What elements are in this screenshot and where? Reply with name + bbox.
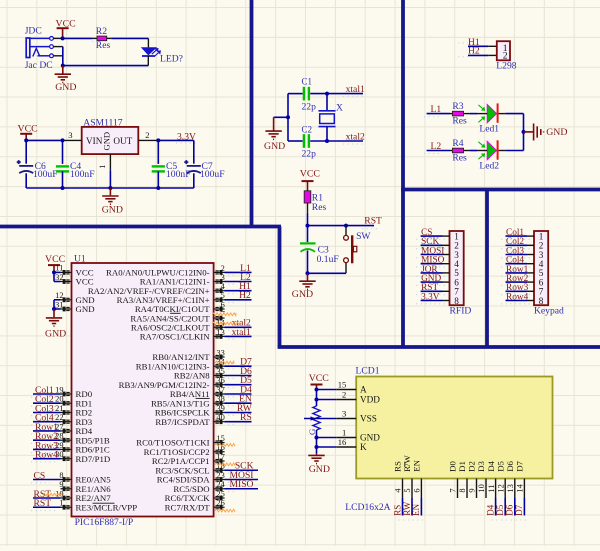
U1 pin 38 net EN xyxy=(214,402,225,405)
U1 overline T1G xyxy=(196,397,210,399)
svg-text:24: 24 xyxy=(216,480,225,489)
svg-text:LCD1: LCD1 xyxy=(356,366,380,377)
wire VCC to R2 xyxy=(63,37,93,39)
wire jack pins to ground node xyxy=(62,47,64,66)
sheet divider horizontal bottom xyxy=(278,345,600,349)
wire LCD vcc column xyxy=(316,390,318,407)
wire H1 xyxy=(468,45,488,47)
U1 pin 28 net Row2 xyxy=(61,439,72,442)
svg-text:C2: C2 xyxy=(302,124,313,134)
svg-text:Jac DC: Jac DC xyxy=(25,60,53,71)
U1 pin 33 xyxy=(214,356,225,359)
svg-text:5: 5 xyxy=(221,291,225,300)
svg-text:21: 21 xyxy=(55,404,63,413)
wire LCD gnd column xyxy=(316,430,318,453)
U1 pin 32 VCC xyxy=(61,280,72,283)
U1 pin 1 net RST xyxy=(61,506,72,509)
ground GND LCD xyxy=(316,453,318,454)
svg-text:RB7/ICSPDAT: RB7/ICSPDAT xyxy=(155,417,210,427)
svg-text:OUT: OUT xyxy=(113,136,132,146)
U1 pin 10 net RST xyxy=(61,497,72,500)
wire C1 to xtal1 xyxy=(310,93,363,95)
svg-text:RD7/P1D: RD7/P1D xyxy=(76,454,111,464)
svg-text:38: 38 xyxy=(216,395,224,404)
U1 pin 7 xyxy=(214,317,225,320)
sheet divider horizontal left xyxy=(0,225,281,229)
svg-text:10: 10 xyxy=(55,489,63,498)
svg-text:7: 7 xyxy=(449,488,458,492)
LCD1 pin 2 VDD xyxy=(336,399,356,401)
svg-text:LED?: LED? xyxy=(160,53,183,64)
svg-text:PIC16F887-I/P: PIC16F887-I/P xyxy=(75,517,134,528)
wire pot wiper to VSS xyxy=(304,418,336,420)
U1 pin 24 net MISO xyxy=(214,487,225,490)
U1 pin 29 net Row3 xyxy=(61,448,72,451)
svg-text:VCC: VCC xyxy=(309,373,329,384)
wire C1 left xyxy=(288,93,303,95)
svg-text:16: 16 xyxy=(338,437,347,447)
svg-text:0.1uF: 0.1uF xyxy=(317,254,339,265)
svg-text:GND: GND xyxy=(76,304,95,314)
switch SW xyxy=(345,226,347,236)
svg-text:36: 36 xyxy=(216,376,224,385)
connector Keypad xyxy=(534,231,548,305)
wire bottom ground rail xyxy=(26,187,194,189)
svg-text:X: X xyxy=(336,103,343,114)
connector L298 header xyxy=(497,41,510,60)
wire C2 left xyxy=(288,140,303,142)
svg-text:MISO: MISO xyxy=(230,479,254,490)
node C4 junction top xyxy=(61,138,65,142)
svg-text:33: 33 xyxy=(216,348,224,357)
svg-text:RS: RS xyxy=(240,412,252,423)
svg-text:100uF: 100uF xyxy=(200,169,225,180)
pin 1 GND xyxy=(109,154,111,170)
svg-text:Res: Res xyxy=(312,202,327,213)
ground GND U1 xyxy=(53,309,55,317)
wire LCD D7 xyxy=(523,498,525,516)
svg-text:Row4: Row4 xyxy=(35,450,58,461)
svg-text:GND: GND xyxy=(292,289,313,300)
wire R3 to led xyxy=(470,113,477,115)
sheet divider vertical right-top xyxy=(401,0,405,347)
pin 2 OUT xyxy=(138,139,158,141)
svg-text:8: 8 xyxy=(458,488,467,492)
svg-text:3: 3 xyxy=(68,130,72,140)
svg-text:D1: D1 xyxy=(457,461,467,472)
svg-text:39: 39 xyxy=(216,404,224,413)
svg-text:40: 40 xyxy=(216,413,224,422)
U1 pin 30 net Row4 xyxy=(61,457,72,460)
pin 3 VIN xyxy=(62,139,82,141)
svg-text:17: 17 xyxy=(216,452,224,461)
svg-text:12: 12 xyxy=(55,291,63,300)
U1 pin 18 net SCK xyxy=(214,469,225,472)
svg-text:100nF: 100nF xyxy=(70,169,95,180)
svg-text:13: 13 xyxy=(216,328,224,337)
svg-text:22p: 22p xyxy=(302,148,317,159)
svg-text:xtal1: xtal1 xyxy=(346,84,365,95)
svg-text:RS: RS xyxy=(393,461,403,472)
sheet divider vertical middle xyxy=(278,227,282,348)
wire led common xyxy=(523,114,525,151)
ground GND leds sideways xyxy=(524,131,534,133)
svg-text:GND: GND xyxy=(360,433,380,443)
U1 pin 20 net Col2 xyxy=(61,402,72,405)
svg-text:19: 19 xyxy=(55,385,63,394)
svg-text:RST: RST xyxy=(34,498,52,509)
svg-text:xtal1: xtal1 xyxy=(232,327,251,338)
svg-text:Res: Res xyxy=(452,116,467,127)
U1 pin 6 xyxy=(214,308,225,311)
svg-text:GND: GND xyxy=(55,82,76,93)
ground GND jack xyxy=(62,66,64,74)
U1 pin 34 net D7 xyxy=(214,365,225,368)
U1 pin 13 net xtal1 xyxy=(214,335,225,338)
svg-text:RE3/MCLR/VPP: RE3/MCLR/VPP xyxy=(76,502,138,512)
wire gnd stub xyxy=(274,116,288,118)
svg-text:D3: D3 xyxy=(476,460,486,471)
svg-text:2: 2 xyxy=(221,264,225,273)
wire node to RST xyxy=(308,225,375,227)
svg-text:D7: D7 xyxy=(515,460,525,471)
capacitor C4 xyxy=(62,140,64,164)
diode LED1 power indicator xyxy=(147,38,149,47)
wire switch return xyxy=(308,272,347,274)
svg-text:37: 37 xyxy=(216,385,224,394)
wire LCD R/W xyxy=(411,498,413,516)
node C3 gnd junction xyxy=(306,271,310,275)
svg-text:9: 9 xyxy=(59,480,63,489)
wire LED return to jack xyxy=(63,65,149,67)
capacitor C5 xyxy=(157,140,159,164)
svg-text:D5: D5 xyxy=(495,504,505,515)
svg-text:Led1: Led1 xyxy=(479,123,499,134)
U1 pin 19 net Col1 xyxy=(61,393,72,396)
node jack ground junction xyxy=(61,64,65,68)
U1 pin 16 xyxy=(214,450,225,453)
svg-text:RC7/RX/DT: RC7/RX/DT xyxy=(165,502,211,512)
U1 pin 11 VCC xyxy=(61,271,72,274)
svg-text:D7: D7 xyxy=(514,504,524,515)
U1 pin 21 net Col3 xyxy=(61,411,72,414)
wire R1 to node xyxy=(307,213,309,226)
connector RFID xyxy=(450,231,464,305)
svg-text:6: 6 xyxy=(221,300,225,309)
svg-text:EN: EN xyxy=(411,503,421,515)
svg-text:RFID: RFID xyxy=(450,306,472,317)
svg-text:32: 32 xyxy=(55,273,63,282)
U1 pin 25 xyxy=(214,497,225,500)
svg-text:12: 12 xyxy=(496,484,505,492)
svg-text:14: 14 xyxy=(516,483,525,492)
node C5 junction top xyxy=(156,138,160,142)
svg-text:2: 2 xyxy=(145,130,149,140)
svg-text:VSS: VSS xyxy=(360,414,377,424)
diode Led2 xyxy=(487,141,496,159)
svg-text:35: 35 xyxy=(216,367,224,376)
wire Led1 to gnd xyxy=(505,113,523,115)
svg-text:GND: GND xyxy=(309,464,330,475)
ground GND reset xyxy=(307,273,309,280)
svg-text:11: 11 xyxy=(55,264,63,273)
svg-text:U1: U1 xyxy=(74,254,86,265)
connector JDC barrel jack xyxy=(26,38,30,58)
wire L2 to R4 xyxy=(427,150,450,152)
svg-text:8: 8 xyxy=(539,296,544,306)
svg-text:JDC: JDC xyxy=(25,26,42,37)
svg-text:25: 25 xyxy=(216,489,224,498)
wire top rail right / net 3.3V xyxy=(158,139,194,141)
svg-text:VCC: VCC xyxy=(76,277,94,287)
erc marker squiggles xyxy=(212,313,236,316)
svg-text:15: 15 xyxy=(216,434,224,443)
sheet divider vertical right-mid xyxy=(485,190,489,348)
wire R4 to led xyxy=(470,150,477,152)
svg-text:R3: R3 xyxy=(452,101,463,112)
svg-text:23: 23 xyxy=(216,471,224,480)
svg-text:6: 6 xyxy=(413,488,422,492)
svg-text:L298: L298 xyxy=(496,61,516,72)
U1 pin 5 net H2 xyxy=(214,298,225,301)
svg-text:R2: R2 xyxy=(96,26,107,37)
svg-text:8: 8 xyxy=(454,296,459,306)
wire H2 xyxy=(468,54,488,56)
svg-text:11: 11 xyxy=(487,485,496,493)
svg-text:D5: D5 xyxy=(495,460,505,471)
U1 pin 12 GND xyxy=(61,298,72,301)
svg-text:GND: GND xyxy=(102,205,123,216)
U1 pin 39 net RW xyxy=(214,411,225,414)
svg-text:D6: D6 xyxy=(505,504,515,515)
svg-text:D0: D0 xyxy=(448,460,458,471)
crystal X xyxy=(326,94,328,111)
U1 pin 27 net Row1 xyxy=(61,429,72,432)
svg-text:CS: CS xyxy=(34,470,46,481)
node led gnd junction xyxy=(522,130,526,134)
LCD1 pin 15 A xyxy=(336,389,356,391)
wire R2 to LED xyxy=(111,37,148,39)
U1 pin 35 net D6 xyxy=(214,374,225,377)
wire top rail left xyxy=(26,139,62,141)
svg-text:C1: C1 xyxy=(302,76,313,86)
wire C2 to xtal2 xyxy=(310,140,363,142)
svg-text:GND: GND xyxy=(45,329,66,340)
node xtal1 junction xyxy=(325,92,329,96)
wire LCD D5 xyxy=(504,498,506,516)
node bottom rail junctions xyxy=(61,186,65,190)
svg-text:D4: D4 xyxy=(486,460,496,471)
svg-text:2: 2 xyxy=(342,389,346,399)
node U1 vcc junction xyxy=(52,270,56,274)
LCD1 pin 16 K xyxy=(336,446,356,448)
U1 pin 14 net xtal2 xyxy=(214,326,225,329)
U1 pin 9 xyxy=(61,487,72,490)
svg-text:8: 8 xyxy=(59,471,63,480)
svg-text:13: 13 xyxy=(506,484,515,492)
node caps gnd junction xyxy=(286,115,290,119)
svg-text:RS: RS xyxy=(392,505,402,516)
svg-text:VCC: VCC xyxy=(300,169,320,180)
capacitor C3 xyxy=(307,226,309,243)
svg-text:Res: Res xyxy=(96,40,111,51)
U1 pin 22 net Col4 xyxy=(61,420,72,423)
node switch junction xyxy=(344,224,348,228)
svg-text:H2: H2 xyxy=(239,290,251,301)
ground GND crystal xyxy=(265,131,281,139)
svg-text:100nF: 100nF xyxy=(166,169,191,180)
svg-text:RST: RST xyxy=(364,216,382,227)
svg-text:R4: R4 xyxy=(452,138,463,149)
U1 pin 40 net RS xyxy=(214,420,225,423)
LCD1 pin 1 GND xyxy=(336,437,356,439)
svg-text:xtal2: xtal2 xyxy=(346,131,365,142)
resistor R4 xyxy=(450,150,452,152)
IC U1 PIC16F887 body xyxy=(72,263,214,517)
wire caps common left xyxy=(287,94,289,141)
U1 pin 37 net D4 xyxy=(214,393,225,396)
U1 pin 17 xyxy=(214,460,225,463)
jack pin 1 contact xyxy=(30,37,50,39)
svg-text:26: 26 xyxy=(216,499,224,508)
capacitor C7 xyxy=(193,140,195,163)
svg-text:VDD: VDD xyxy=(360,395,380,405)
svg-text:EN: EN xyxy=(412,459,422,471)
node xtal2 junction xyxy=(325,139,329,143)
ground GND regulator xyxy=(109,188,111,195)
svg-text:Res: Res xyxy=(452,153,467,164)
svg-text:Led2: Led2 xyxy=(479,160,499,171)
svg-text:D4: D4 xyxy=(485,504,495,515)
node vcc rail junction xyxy=(24,138,28,142)
sheet divider horizontal right xyxy=(401,188,600,192)
wire L1 to R3 xyxy=(427,113,450,115)
svg-text:10: 10 xyxy=(477,484,486,492)
svg-text:3: 3 xyxy=(342,408,346,418)
wire LCD EN xyxy=(420,498,422,516)
resistor R1 xyxy=(304,191,311,203)
U1 overline MCLR xyxy=(93,502,115,504)
svg-text:22: 22 xyxy=(55,413,63,422)
U1 pin 8 net CS xyxy=(61,478,72,481)
svg-text:1: 1 xyxy=(342,427,346,437)
svg-text:K: K xyxy=(360,442,367,452)
svg-text:GND: GND xyxy=(264,141,285,152)
svg-text:22p: 22p xyxy=(302,101,317,112)
svg-text:20: 20 xyxy=(55,395,63,404)
node U1 gnd junction xyxy=(52,307,56,311)
svg-text:D2: D2 xyxy=(467,461,477,472)
U1 pin 15 xyxy=(214,441,225,444)
wire LCD D6 xyxy=(514,498,516,516)
U1 pin 26 xyxy=(214,506,225,509)
U1 pin 31 GND xyxy=(61,308,72,311)
node jack VCC junction xyxy=(61,36,65,40)
capacitor C6 xyxy=(25,140,27,163)
sheet divider vertical left xyxy=(250,0,254,227)
svg-text:GND: GND xyxy=(546,127,567,138)
svg-text:D6: D6 xyxy=(505,460,515,471)
wire LCD D4 xyxy=(495,498,497,516)
svg-text:LCD16x2A: LCD16x2A xyxy=(345,502,390,513)
svg-text:100uF: 100uF xyxy=(33,169,58,180)
svg-text:1: 1 xyxy=(97,165,107,169)
U1 pin 2 net L1 xyxy=(214,271,225,274)
node reset junction xyxy=(306,224,310,228)
U1 pin 23 net MOSI xyxy=(214,478,225,481)
jack pin 3 contact switch xyxy=(33,48,40,56)
resistor R2 xyxy=(93,37,97,39)
svg-text:5: 5 xyxy=(403,488,412,492)
svg-text:SW: SW xyxy=(356,231,371,242)
diode Led1 xyxy=(487,104,496,122)
wire U1 gnd pins xyxy=(53,300,55,309)
U1 pin 36 net D5 xyxy=(214,383,225,386)
jack pin 2 contact xyxy=(30,46,50,48)
svg-text:15: 15 xyxy=(338,379,347,389)
U1 overline SS xyxy=(170,312,181,314)
svg-text:GND: GND xyxy=(102,132,112,151)
LCD1 pin 3 VSS xyxy=(336,418,356,420)
resistor R3 xyxy=(450,113,452,115)
svg-text:Keypad: Keypad xyxy=(534,306,564,317)
svg-text:3: 3 xyxy=(221,273,225,282)
wire LCD RS xyxy=(402,498,404,516)
U1 pin 3 net L2 xyxy=(214,280,225,283)
svg-text:A: A xyxy=(360,385,367,395)
svg-text:VIN: VIN xyxy=(86,136,103,146)
U1 pin 4 net H1 xyxy=(214,289,225,292)
svg-text:9: 9 xyxy=(468,488,477,492)
svg-text:1: 1 xyxy=(59,499,63,508)
potentiometer G contrast xyxy=(313,406,320,430)
svg-text:RA7/OSC1/CLKIN: RA7/OSC1/CLKIN xyxy=(140,332,211,342)
svg-text:31: 31 xyxy=(55,300,63,309)
wire Led2 to gnd xyxy=(505,150,523,152)
